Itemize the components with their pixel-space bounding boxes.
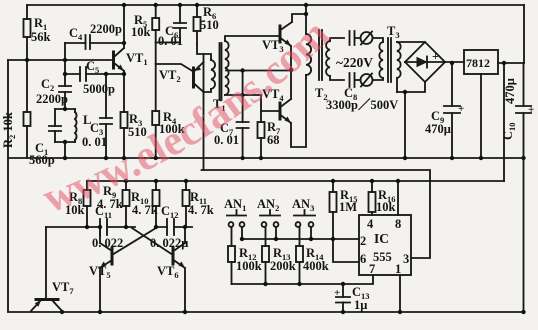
svg-text:+: +: [458, 103, 464, 115]
svg-text:+: +: [334, 287, 340, 299]
svg-text:10k: 10k: [376, 200, 396, 214]
svg-text:1: 1: [395, 262, 401, 276]
svg-text:510: 510: [200, 18, 219, 32]
svg-text:470μ: 470μ: [503, 78, 517, 104]
svg-text:4. 7k: 4. 7k: [132, 203, 158, 217]
svg-text:5000p: 5000p: [83, 82, 115, 96]
svg-text:3: 3: [403, 252, 409, 266]
svg-text:1M: 1M: [339, 200, 357, 214]
svg-text:IC: IC: [374, 231, 389, 246]
svg-text:470μ: 470μ: [425, 122, 451, 136]
svg-text:~220V: ~220V: [336, 55, 373, 70]
svg-text:4: 4: [367, 217, 374, 231]
svg-text:R2 10k: R2 10k: [1, 112, 17, 148]
svg-text:6: 6: [360, 252, 366, 266]
svg-text:56k: 56k: [31, 30, 51, 44]
svg-text:3300p／500V: 3300p／500V: [326, 97, 398, 112]
svg-text:400k: 400k: [303, 259, 329, 273]
svg-text:8: 8: [395, 217, 401, 231]
svg-text:560p: 560p: [29, 153, 55, 167]
svg-text:7: 7: [369, 262, 375, 276]
svg-text:68: 68: [267, 133, 280, 147]
svg-text:100k: 100k: [236, 259, 262, 273]
svg-text:10k: 10k: [131, 25, 151, 39]
svg-text:7812: 7812: [466, 56, 490, 70]
svg-text:1μ: 1μ: [354, 298, 367, 312]
svg-text:2200p: 2200p: [36, 92, 68, 106]
svg-text:0. 01: 0. 01: [82, 135, 107, 149]
svg-text:0. 022μ: 0. 022μ: [150, 236, 188, 250]
svg-text:+: +: [432, 49, 439, 63]
svg-text:2: 2: [360, 234, 366, 248]
svg-text:200k: 200k: [270, 259, 296, 273]
svg-text:+: +: [528, 104, 534, 116]
svg-text:4. 7k: 4. 7k: [188, 203, 214, 217]
svg-text:2200p: 2200p: [90, 22, 122, 36]
svg-text:555: 555: [373, 250, 392, 264]
svg-text:0. 01: 0. 01: [158, 34, 183, 48]
svg-text:0. 022: 0. 022: [92, 236, 123, 250]
